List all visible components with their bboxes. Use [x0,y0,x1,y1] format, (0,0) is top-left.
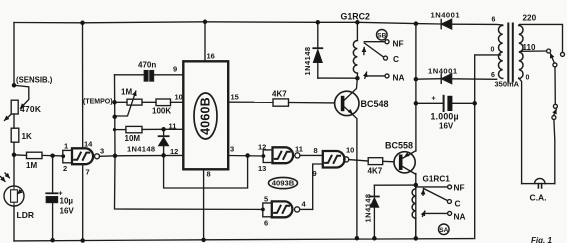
svg-text:9: 9 [313,169,317,178]
svg-text:470K: 470K [20,104,41,114]
junction bottom rail / 10u cap [50,238,55,243]
svg-text:15: 15 [231,93,239,102]
wire 0 tap primary down to CA [519,78,522,184]
svg-text:G1RC2: G1RC2 [341,12,370,22]
node A / 1M pot [112,100,117,105]
IC U1 4060B body [183,61,228,169]
svg-text:7: 7 [86,168,90,177]
junction gate4 input bracket [261,208,265,212]
transformer T1 secondary winding 6-0-6 [498,25,502,78]
svg-text:LDR: LDR [17,210,34,220]
svg-text:16V: 16V [60,207,75,216]
svg-text:100K: 100K [152,107,171,116]
junction bottom rail / Q1 emitter [355,236,360,241]
svg-text:1M: 1M [26,161,37,170]
junction bottom rail / pin8 line [201,238,206,243]
wire 10M to IC pin11 [164,128,184,130]
plug C.A. output [522,178,555,188]
wire gate2 out to gate3 in (pin 8) [300,154,323,156]
junction pin3 / gate2 input [245,153,250,158]
svg-text:1K: 1K [22,132,32,141]
junction supply branch / 1.000u wire [414,101,419,106]
node gate1 output [113,154,118,159]
svg-text:1.000µ: 1.000µ [431,112,459,122]
LDR [1,173,24,206]
node A / 1M wiper [112,115,117,120]
junction 470K wiper [12,83,17,88]
wire 110 tap [521,50,547,52]
svg-text:SA: SA [439,227,448,234]
svg-text:0: 0 [526,75,530,82]
capacitor 470n [144,71,183,81]
switch SA circle [439,224,450,235]
junction top rail / pin16 line [203,20,208,25]
svg-text:2: 2 [63,164,67,173]
transistor Q1 BC548 [335,78,359,238]
node A / 10M [113,128,116,131]
svg-text:3: 3 [230,145,234,154]
svg-text:6: 6 [492,17,496,24]
svg-text:Fig. 1: Fig. 1 [531,236,552,243]
transformer T1 core [508,24,513,82]
svg-text:3: 3 [100,147,104,156]
junction Q2 collector / coil G1RC1 / D4 wire [414,183,419,188]
junction gate1 input bracket [61,154,65,158]
junction 1.000u wire / centre-tap line [472,101,477,106]
IC 4093B label ellipse [269,177,298,188]
wire top supply rail [14,22,503,25]
wire gate1-out to gate4 input [115,156,263,210]
svg-text:+: + [432,96,436,103]
junction bottom rail / pin7 line [80,238,85,243]
wire gate1 out to IC pin12 [115,154,183,156]
svg-text:6: 6 [491,72,495,79]
diode D1 1N4148 (oscillator) [158,129,168,155]
junction gate2 input bracket [262,154,266,158]
junction top rail / D3 1N4148 [316,20,321,25]
diode D4 1N4148 (G1RC1 flyback) [370,185,416,238]
resistor 1K [11,128,19,142]
resistor 10M [115,126,164,132]
vertical supply branch x=416 [415,24,417,151]
wire gate3 out to 4K7 [349,160,368,161]
svg-text:4093B: 4093B [272,179,295,188]
svg-text:1N4148: 1N4148 [303,47,312,76]
wire feedback loop pin12/pin3 [164,155,248,188]
wire pin9 [115,74,145,76]
diode D5 1N4001 (top, on rail) [441,19,451,29]
svg-text:1N4001: 1N4001 [431,11,461,20]
svg-text:12: 12 [258,143,266,152]
wire 220 tap [519,24,563,52]
svg-text:4K7: 4K7 [272,90,287,99]
resistor 1M (horizontal) [14,152,63,158]
svg-text:5: 5 [264,195,268,204]
relay G1RC1 contacts NF C NA [417,185,452,216]
capacitor 1.000u electrolytic [416,96,475,111]
junction left rail / 1M [12,153,17,158]
junction coil G1RC2 / D3 / Q1 collector [355,76,360,81]
svg-text:13: 13 [258,164,266,173]
resistor 4K7 (BC558 base) [368,158,394,165]
svg-text:BC548: BC548 [361,99,389,109]
relay coil G1RC1 [412,185,416,238]
svg-text:11: 11 [295,145,303,154]
svg-text:16V: 16V [439,122,454,131]
svg-text:NA: NA [454,212,466,222]
junction 1M / 10u cap [50,153,55,158]
svg-text:NF: NF [393,39,404,49]
svg-text:10M: 10M [125,134,141,143]
svg-text:10: 10 [175,93,183,102]
svg-text:4060B: 4060B [198,97,212,135]
svg-text:220: 220 [523,14,537,23]
svg-text:10: 10 [346,146,354,155]
diode D6 1N4001 (lower) [416,74,497,84]
relay coil G1RC2 [353,22,357,78]
svg-text:C.A.: C.A. [530,193,547,203]
selector switch 110/220 [547,49,565,184]
junction pin12 / D1 [161,153,166,158]
svg-text:(TEMPO): (TEMPO) [83,99,113,106]
node A vertical (TEMPO oscillator node) [114,75,117,156]
svg-text:(SENSIB.): (SENSIB.) [16,76,53,85]
svg-text:8: 8 [314,146,318,155]
IC 4060B label ellipse [194,93,217,139]
transformer T1 primary winding 220-110-0 [519,25,523,78]
potentiometer 1M (TEMPO) [115,91,157,116]
svg-text:SB: SB [377,32,386,39]
wire bottom ground rail [14,239,473,241]
svg-text:1M: 1M [121,88,132,97]
svg-text:BC558: BC558 [385,141,413,151]
wire pin8 [203,169,205,240]
potentiometer 470K (SENSIB.) [5,85,29,120]
svg-text:10µ: 10µ [60,197,74,206]
resistor 100K [156,99,183,106]
wire centre-tap 0 line [475,55,501,239]
transistor Q2 BC558 [394,151,416,175]
svg-text:1N4001: 1N4001 [428,67,458,76]
svg-text:12: 12 [170,147,178,156]
nand gate U2d (pins 5,6,4) [263,201,313,217]
switch SB circle [377,30,388,41]
svg-text:NA: NA [393,73,405,83]
svg-text:8: 8 [207,170,211,179]
svg-text:NF: NF [454,183,465,193]
junction bottom rail / coil G1RC1 [414,236,419,241]
nand gate U2c (pins 8,9,10) [323,151,349,168]
junction supply branch / D6 wire [414,77,419,82]
wire pin16 [204,22,206,62]
capacitor 10u electrolytic [46,156,57,241]
nand gate U2a (4093 pins 1,2,3) [63,148,115,240]
svg-text:16: 16 [207,52,215,61]
svg-text:G1RC1: G1RC1 [423,175,451,184]
svg-text:11: 11 [169,122,177,131]
junction top rail / pin14 line [80,21,85,26]
junction pin11 / D1 [161,127,166,132]
svg-text:470n: 470n [138,61,156,70]
svg-text:350mA: 350mA [495,80,520,89]
wire pin15 [228,101,273,103]
svg-text:0: 0 [491,47,495,54]
resistor 4K7 (BC548 base) [273,99,335,106]
junction top rail / relay coil G1RC2 [355,20,360,25]
svg-text:110: 110 [523,43,536,52]
svg-text:1N4148: 1N4148 [364,194,373,223]
wire pin3 to gate2 [228,155,263,158]
junction top rail / supply branch [414,21,419,26]
junction bottom rail / D4 [372,236,377,241]
wire left rail segments (SENSIB branch) [13,23,15,241]
nand gate U2b (pins 12,13,11) [263,147,300,163]
svg-text:C: C [455,199,461,209]
svg-text:1N4148: 1N4148 [127,145,155,154]
svg-text:C: C [393,54,399,64]
relay G1RC2 contacts NF C NA [364,40,389,79]
wire gate4 out up to gate3 pin9 [313,164,323,209]
wire pin14 vertical [82,23,84,149]
diode D3 1N4148 (G1RC2 flyback) [313,22,357,78]
svg-text:4K7: 4K7 [368,167,383,176]
svg-text:1: 1 [64,142,68,151]
svg-text:14: 14 [84,140,93,149]
svg-text:9: 9 [173,65,177,74]
svg-text:6: 6 [264,219,268,228]
